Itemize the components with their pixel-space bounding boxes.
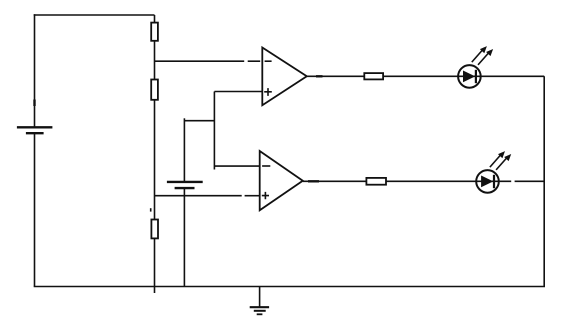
resistor R5 (U2 output series resistor) [366,178,386,185]
wire bottom rail [34,286,545,288]
wire stub artifact left of divider chain [150,208,152,211]
resistor R3 (bottom of divider) [151,220,158,239]
op-amp U1 (upper comparator) [262,48,307,106]
wire op-amp U2 output to LED D2 (with dash break after LED) [303,180,544,182]
wire battery B2 bottom lead to bottom rail [183,188,185,286]
wire right vertical rail [543,76,545,286]
wire battery B2 top lead [183,118,185,182]
node A: divider tap R1/R2, wire to op-amp U1 inverting input (with dash break) [155,60,261,62]
wire op-amp U1 non-inverting input [214,91,262,93]
battery B2 (reference source) [167,182,203,188]
wire overlap dash on left vertical [33,100,35,107]
ground [250,287,269,315]
wire op-amp U1 output to LED D1 and right rail [307,75,544,77]
wire left vertical from battery B1 negative plate to bottom rail [34,133,36,286]
wire overlap dash on U1 output [316,75,323,77]
node B: divider tap R2/R3, wire to op-amp U2 non-inverting input (with dash break) [155,195,260,197]
LED D1 (upper indicator) [458,46,493,88]
resistor R2 (middle of divider) [151,80,158,100]
wire overlap dash on U2 output [308,180,319,182]
wire left vertical from top rail down to battery B1 positive plate [34,14,36,127]
wire op-amp U2 inverting input [214,165,259,167]
resistor R4 (U1 output series resistor) [364,73,383,79]
wire resistor divider chain vertical (x=154.5) with overshoot below bottom rail [154,15,156,293]
wire vertical bus joining op-amp U1 + input and op-amp U2 - input (x=214.4) [213,92,215,170]
LED D2 (lower indicator) [476,151,511,193]
battery B1 (left supply) [17,127,53,133]
resistor R1 (top of divider) [151,23,158,41]
wire top rail from battery B1 to resistor chain [34,14,155,16]
wire from battery B2 top to input bus [184,120,214,122]
op-amp U2 (lower comparator) [260,151,303,210]
